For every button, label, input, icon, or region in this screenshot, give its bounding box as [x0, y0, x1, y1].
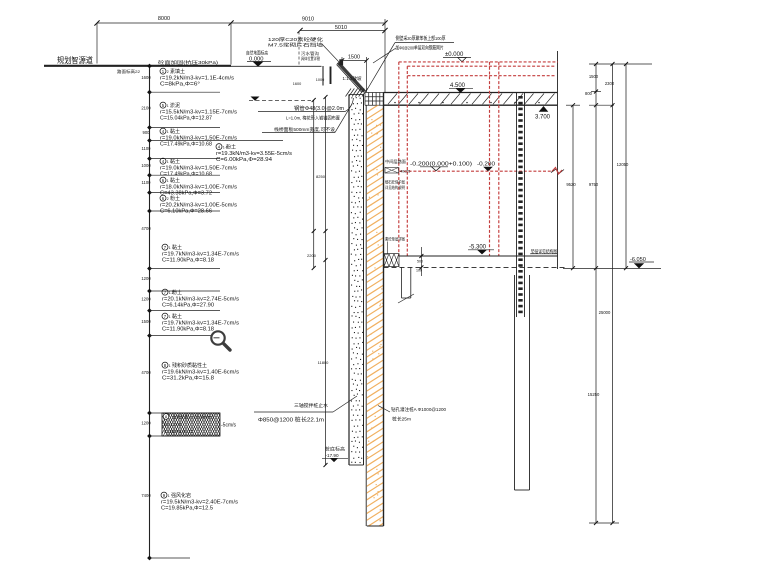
svg-text:3.700: 3.700	[535, 115, 551, 121]
svg-text:路面标高22: 路面标高22	[117, 68, 141, 74]
svg-text:1200: 1200	[141, 297, 151, 302]
soil layer boundary lines	[150, 92, 284, 558]
svg-text:粉土: 粉土	[172, 289, 182, 296]
svg-text:1: 1	[168, 494, 170, 498]
svg-text:1: 1	[167, 104, 169, 108]
svg-text:9010: 9010	[302, 17, 314, 23]
svg-text:详见结构说明: 详见结构说明	[385, 184, 405, 190]
small dim slab thickness	[416, 247, 423, 276]
svg-text:1500: 1500	[589, 74, 599, 79]
svg-text:1000: 1000	[316, 78, 324, 82]
svg-text:黏土: 黏土	[172, 313, 182, 320]
svg-text:800: 800	[585, 91, 593, 96]
svg-text:4700: 4700	[141, 226, 151, 231]
natural ground elevation 0.000	[246, 50, 271, 67]
svg-text:C=17.49kPa,Φ=10.68: C=17.49kPa,Φ=10.68	[160, 171, 212, 177]
svg-text:自然地面标高: 自然地面标高	[246, 50, 268, 57]
svg-text:900: 900	[143, 130, 151, 135]
svg-text:1100: 1100	[141, 180, 151, 185]
svg-text:淤泥: 淤泥	[170, 102, 180, 109]
svg-text:全风化岩 r=19.0kN/m3: 全风化岩 r=19.0kN/m3	[172, 414, 215, 421]
svg-text:-17.90: -17.90	[326, 453, 339, 458]
top slab with concrete hatch	[384, 93, 558, 106]
soil layer 51 block	[160, 102, 238, 121]
svg-text:M7.5浆砌片石挡墙: M7.5浆砌片石挡墙	[268, 42, 324, 49]
soil layer 71 block	[162, 313, 240, 332]
note: steel pipe phi48	[258, 98, 354, 133]
svg-text:-5cm/s: -5cm/s	[221, 423, 237, 429]
svg-text:1500: 1500	[348, 55, 360, 61]
soil layer 71 block	[162, 244, 240, 263]
svg-text:1200: 1200	[141, 421, 151, 426]
mid dim line 2200	[307, 98, 317, 270]
right dim line 12050	[617, 62, 629, 270]
svg-text:C=8kPa,Φ=6°: C=8kPa,Φ=6°	[160, 81, 200, 87]
basement outline red dashed	[399, 62, 558, 256]
svg-text:11800: 11800	[318, 360, 330, 365]
soil column main vertical line	[149, 66, 151, 558]
mid dim line 8250/11800	[316, 95, 329, 467]
svg-text:侧壁采20厚聚苯板上部100厚: 侧壁采20厚聚苯板上部100厚	[396, 35, 446, 42]
svg-text:黏土: 黏土	[172, 244, 182, 251]
svg-text:1: 1	[167, 179, 169, 183]
svg-text:1600: 1600	[293, 82, 301, 86]
soil layer 41 block	[160, 128, 238, 147]
note plain concrete cushion	[384, 236, 405, 255]
svg-text:8250: 8250	[316, 174, 326, 179]
svg-text:kv=1.00E: kv=1.00E	[164, 422, 182, 427]
slope retaining wall 1:1.5	[337, 59, 365, 92]
svg-text:7400: 7400	[141, 493, 151, 498]
elevation -0.200 labels	[410, 162, 495, 172]
svg-text:4700: 4700	[141, 370, 151, 375]
water table dashed line	[249, 97, 311, 101]
svg-text:素砼垫层详图: 素砼垫层详图	[385, 236, 405, 242]
svg-text:40c25: 40c25	[400, 170, 410, 174]
soil layer 61 block	[160, 177, 238, 196]
svg-text:加Φ6@200单层双向钢筋网片: 加Φ6@200单层双向钢筋网片	[396, 45, 444, 52]
right dim line 2300/25000	[589, 62, 619, 525]
svg-text:1000: 1000	[141, 163, 151, 168]
svg-text:桩长25m: 桩长25m	[392, 416, 411, 423]
svg-text:规划智源道: 规划智源道	[57, 55, 93, 65]
column bored pile below	[515, 275, 530, 490]
svg-text:细石砼保护层: 细石砼保护层	[385, 179, 405, 185]
svg-text:9520: 9520	[566, 182, 576, 187]
mid-level red dashed line -0.200	[399, 168, 562, 175]
svg-text:1: 1	[169, 315, 171, 319]
elevation -5.300	[468, 245, 494, 255]
note: sewer duct	[299, 32, 320, 67]
soil layer 12 block	[160, 68, 235, 87]
svg-text:C=6.10kPa,Φ=28.66: C=6.10kPa,Φ=28.66	[160, 208, 212, 214]
svg-text:9750: 9750	[589, 182, 599, 187]
dim chain top: 8000 / 9010	[94, 16, 387, 93]
svg-text:C=31.2kPa,Φ=15.8: C=31.2kPa,Φ=15.8	[162, 375, 214, 381]
note: bored pile	[378, 406, 446, 423]
planned road line and label	[44, 55, 322, 74]
svg-text:具体位置详勘: 具体位置详勘	[301, 55, 320, 62]
svg-text:粉土: 粉土	[170, 195, 180, 202]
svg-text:1500: 1500	[141, 319, 151, 324]
svg-text:C=6.00kPa,Φ=28.94: C=6.00kPa,Φ=28.94	[216, 157, 272, 163]
svg-text:黏土: 黏土	[170, 158, 180, 165]
note: pavement / masonry wall	[268, 36, 339, 62]
soil dim labels left	[141, 75, 151, 498]
berm hatch triangle	[346, 89, 368, 97]
svg-text:500: 500	[417, 260, 423, 264]
note: middle floor small texts	[385, 158, 410, 190]
svg-text:砼面加固(抗压30kPa): 砼面加固(抗压30kPa)	[158, 59, 219, 66]
svg-text:2: 2	[167, 70, 169, 74]
soil layer 81 block	[162, 362, 240, 381]
svg-text:C=11.90kPa,Φ=8.18: C=11.90kPa,Φ=8.18	[162, 326, 214, 332]
svg-text:C=43.38kPa,Φ=3.72: C=43.38kPa,Φ=3.72	[160, 190, 212, 196]
svg-text:素填土: 素填土	[170, 68, 185, 75]
svg-text:2300: 2300	[605, 81, 615, 86]
svg-text:1: 1	[169, 246, 171, 250]
dim 1500 berm width	[340, 55, 369, 93]
svg-text:1: 1	[169, 364, 171, 368]
soil layer 71-1 block	[162, 289, 240, 308]
elevation +-0.000	[443, 52, 471, 62]
svg-text:粉土: 粉土	[226, 144, 236, 151]
note cushion layer	[530, 248, 558, 255]
slab right edge line	[557, 51, 559, 269]
crown beam grid section	[365, 93, 384, 106]
svg-text:栈桥面板500mm宽度,可不设: 栈桥面板500mm宽度,可不设	[274, 126, 335, 133]
svg-text:C=25kPa,Φ=22: C=25kPa,Φ=22	[164, 429, 194, 434]
svg-text:1600: 1600	[141, 75, 151, 80]
soil boundary tick diamonds	[147, 64, 152, 561]
svg-text:Φ850@1200 桩长22.1m: Φ850@1200 桩长22.1m	[258, 416, 325, 424]
soil layer 91 block	[161, 492, 239, 511]
svg-text:100: 100	[416, 269, 422, 273]
svg-text:C=6.14kPa,Φ=27.90: C=6.14kPa,Φ=27.90	[162, 302, 214, 308]
svg-text:12050: 12050	[617, 162, 629, 167]
soil layer 62 block	[160, 195, 238, 214]
svg-text:8000: 8000	[158, 16, 170, 22]
svg-text:中间层路面: 中间层路面	[385, 158, 406, 164]
svg-text:2: 2	[167, 197, 169, 201]
svg-text:1200: 1200	[141, 276, 151, 281]
svg-text:桩底标高: 桩底标高	[325, 446, 346, 453]
svg-text:C=19.85kPa,Φ=12.5: C=19.85kPa,Φ=12.5	[161, 505, 213, 511]
svg-text:1100: 1100	[141, 146, 151, 151]
svg-text:L=1.0m, 梅花形入岩锚固布置: L=1.0m, 梅花形入岩锚固布置	[286, 115, 340, 122]
svg-text:1: 1	[167, 160, 169, 164]
svg-text:2200: 2200	[307, 253, 317, 258]
svg-text:C=17.49kPa,Φ=10.68: C=17.49kPa,Φ=10.68	[160, 141, 212, 147]
right dim line 9520	[566, 103, 580, 270]
pile bottom elevation -17.90	[322, 446, 348, 463]
svg-text:15250: 15250	[588, 392, 600, 397]
triaxial mixing pile (dotted)	[349, 95, 366, 527]
svg-text:残积砂质黏性土: 残积砂质黏性土	[172, 362, 207, 369]
svg-text:钻孔灌注桩A Φ1000@1200: 钻孔灌注桩A Φ1000@1200	[391, 406, 446, 413]
sump below slab	[398, 267, 414, 303]
jog symbol on right edge	[551, 169, 564, 174]
svg-text:1: 1	[167, 130, 169, 134]
svg-text:±0.000: ±0.000	[445, 52, 464, 58]
svg-text:C=11.90kPa,Φ=8.18: C=11.90kPa,Φ=8.18	[162, 257, 214, 263]
bored cast-in-place pile (orange hatch)	[364, 93, 386, 543]
svg-text:-0.200: -0.200	[477, 162, 495, 168]
svg-text:1:1.5放坡: 1:1.5放坡	[342, 75, 362, 82]
basement bottom slab	[384, 254, 558, 267]
elevation 4.500 slab top	[449, 83, 473, 93]
svg-text:C=15.04kPa,Φ=12.87: C=15.04kPa,Φ=12.87	[160, 115, 212, 121]
pit bottom solid line right	[563, 268, 661, 270]
magnifier icon	[211, 331, 230, 350]
elevation 3.700	[535, 106, 551, 121]
pit bottom dashed line	[384, 266, 566, 268]
elevation -6.050	[629, 257, 654, 268]
svg-text:2100: 2100	[141, 106, 151, 111]
soil layer 41-1 block	[216, 144, 292, 163]
svg-text:三轴搅拌桩止水: 三轴搅拌桩止水	[294, 402, 328, 409]
svg-text:黏土: 黏土	[170, 128, 180, 135]
svg-text:钢管Φ48(3.0)@2.0m: 钢管Φ48(3.0)@2.0m	[294, 104, 344, 112]
svg-text:25000: 25000	[599, 310, 611, 315]
svg-text:强风化岩: 强风化岩	[171, 492, 191, 499]
drain posts at slope crest	[293, 66, 331, 86]
note: mixing pile waterstop	[254, 396, 357, 424]
dim 5010	[297, 25, 387, 33]
soil layer 8-2 hatched band	[156, 413, 257, 436]
note: side wall insulation	[366, 35, 454, 92]
lattice column	[517, 93, 525, 317]
soil layer 41 block	[160, 158, 238, 177]
right dim line 1500/800/9750/15250	[585, 62, 652, 525]
svg-text:5010: 5010	[335, 25, 347, 31]
svg-text:黏土: 黏土	[170, 177, 180, 184]
